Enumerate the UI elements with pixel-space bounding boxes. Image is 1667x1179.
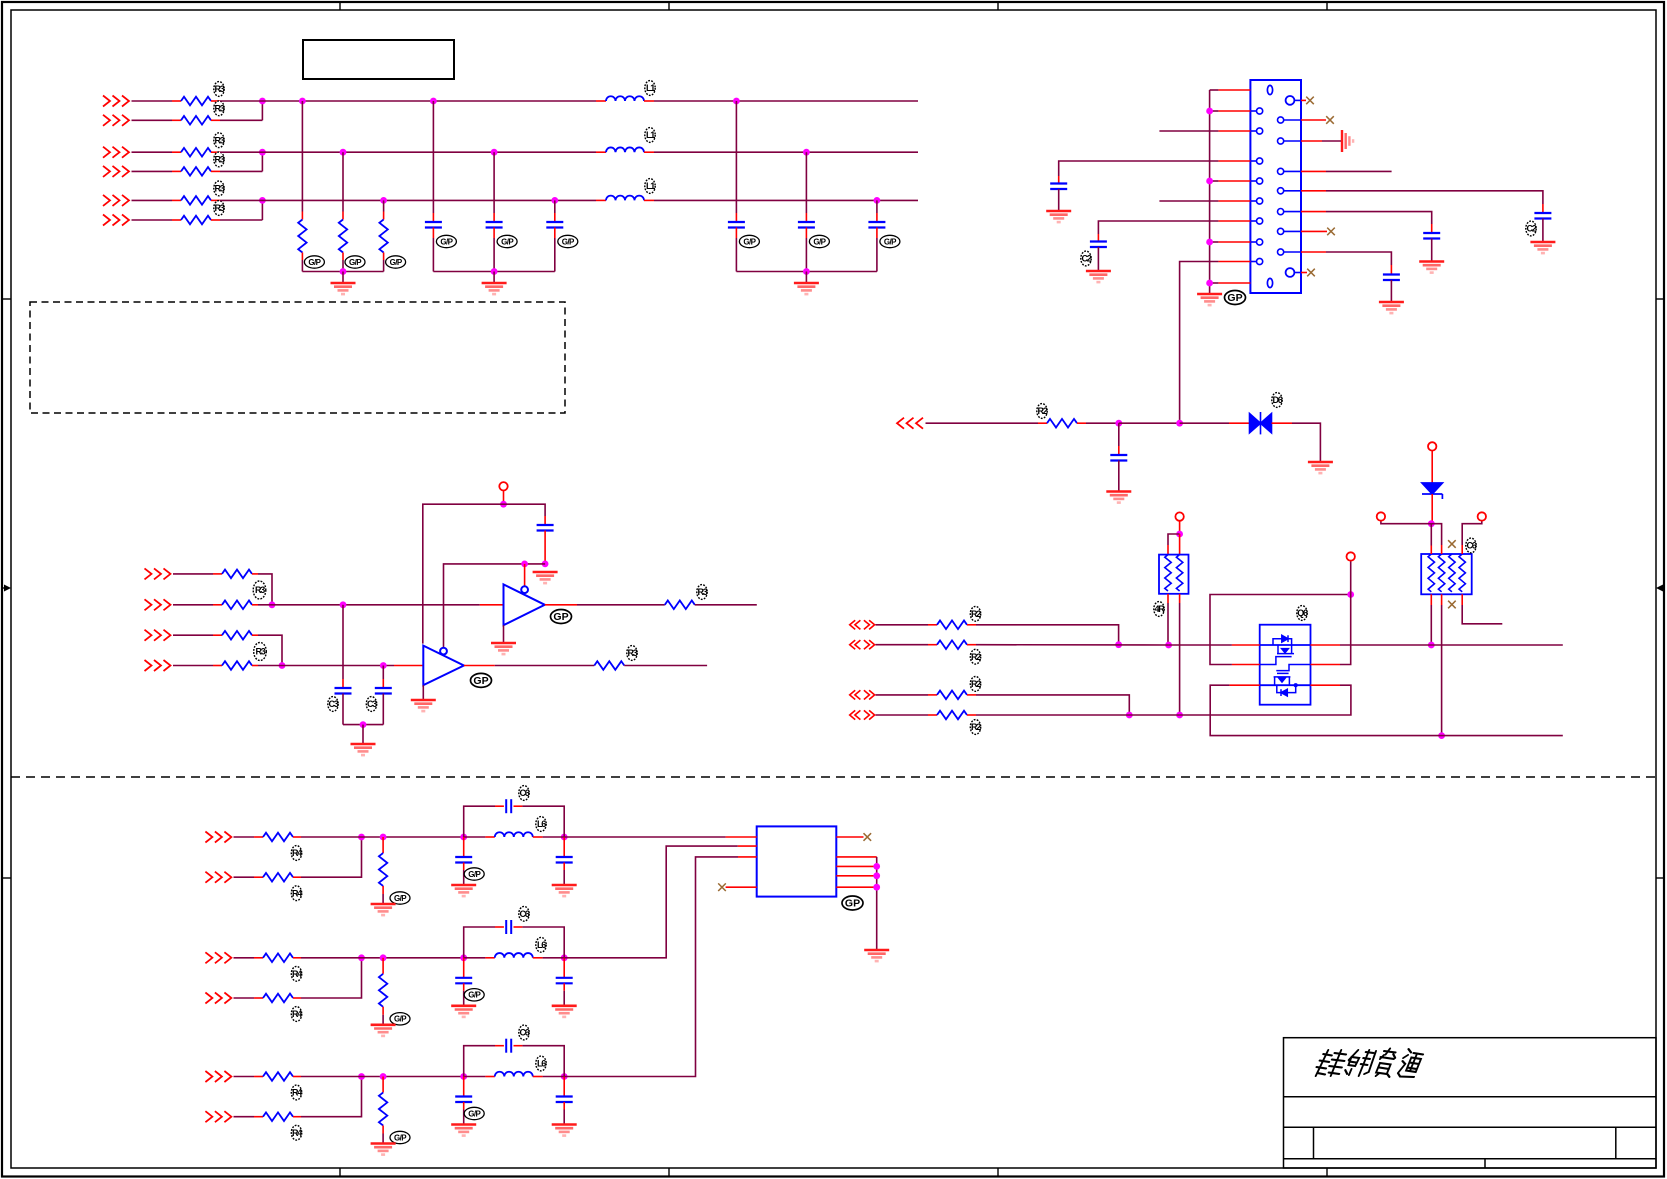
label G/P R17 xyxy=(304,256,324,268)
mosfet Q1 bottom fet xyxy=(1274,677,1291,685)
lead R24 right xyxy=(967,714,976,716)
wire net J1 pin161 xyxy=(1059,161,1219,176)
lead RN2 col1 top xyxy=(1430,546,1432,555)
wire R31 corner xyxy=(258,574,272,605)
lead C31 top xyxy=(342,679,344,688)
wire C72 down xyxy=(463,991,465,1005)
resistor R11 xyxy=(181,97,211,106)
no-connect X U4 right top xyxy=(864,833,872,841)
wire resistor bus stub xyxy=(342,272,344,283)
svg-text:L1: L1 xyxy=(646,181,655,191)
lead J1 left y131 xyxy=(1218,130,1250,132)
mosfet Q1 row C internal xyxy=(1260,684,1311,686)
label G/P C72 xyxy=(464,989,484,1001)
lead U2 bubble xyxy=(524,564,526,586)
lead R14 xyxy=(172,170,181,172)
wire block2 out xyxy=(564,846,738,958)
buffer U2 xyxy=(504,584,545,625)
node bufnet upper cap xyxy=(340,601,347,608)
node R17 tap xyxy=(299,98,306,105)
wire C31 down xyxy=(342,694,344,725)
lead L2 left xyxy=(596,151,606,153)
svg-text:C3: C3 xyxy=(367,699,377,709)
wire RN2 col2 down xyxy=(1441,605,1443,736)
dashed region box xyxy=(30,302,565,413)
lead RN2 col1 bot xyxy=(1430,594,1432,605)
resistor R31 xyxy=(222,570,252,579)
wire C73 down xyxy=(463,1110,465,1124)
input chevrons R11 xyxy=(103,96,129,107)
wire C14 drop xyxy=(735,101,737,213)
resistor R36 xyxy=(594,661,624,670)
border zone tick bottom xyxy=(339,1168,341,1177)
lead RN2 col4 top xyxy=(1461,545,1463,554)
wire C12 to bus xyxy=(493,238,495,272)
lead J1 right y100 xyxy=(1301,99,1306,101)
node block3 pi1 xyxy=(460,1073,467,1080)
wire C11 drop xyxy=(432,101,434,213)
label R41a xyxy=(291,846,302,861)
node R23R24 xyxy=(1126,712,1133,719)
capacitor C21 xyxy=(1050,184,1067,190)
node R15 junction xyxy=(259,197,266,204)
lead C71 top xyxy=(463,837,465,857)
lead C72 top xyxy=(463,958,465,978)
wire R51 gnd xyxy=(382,894,384,903)
lead J1 right y171 xyxy=(1301,170,1326,172)
node R31R32 xyxy=(269,601,276,608)
svg-text:R2: R2 xyxy=(1037,406,1047,416)
border center arrow left xyxy=(2,585,11,592)
lead R43b right xyxy=(293,1116,301,1118)
lead L61 right xyxy=(533,836,543,838)
label C32 xyxy=(366,697,377,712)
node J1 bus y283 xyxy=(1206,280,1213,287)
wire R16 to junction xyxy=(220,219,262,221)
node cap bus mid xyxy=(360,721,367,728)
resistor R42a xyxy=(263,954,293,963)
node U4 r3 xyxy=(873,872,880,879)
resistor network RN2 body xyxy=(1421,554,1472,594)
lead C71 bot xyxy=(463,863,465,871)
capacitor C32 xyxy=(375,688,392,694)
svg-text:R4: R4 xyxy=(292,848,302,858)
wire TVS row xyxy=(1119,422,1180,424)
input chevrons R16 xyxy=(103,215,129,226)
ground C23 xyxy=(1530,242,1555,253)
lead J1 left y161 xyxy=(1218,160,1250,162)
wire C71 down xyxy=(463,870,465,884)
label C63 xyxy=(519,1025,530,1040)
label G/P R51 xyxy=(390,892,410,904)
node cap bus 2 xyxy=(803,268,810,275)
wire block2 row xyxy=(301,957,464,959)
wire U2 out2 xyxy=(695,604,757,606)
lead R15 xyxy=(172,199,181,201)
border zone tick top xyxy=(1326,2,1328,10)
wire J1 y141 to gnd xyxy=(1322,140,1341,142)
lead R12 xyxy=(172,119,181,121)
resistor R24 xyxy=(937,711,967,720)
lead U3 out xyxy=(464,665,495,667)
lead R32 right xyxy=(252,604,258,606)
lead R19 top xyxy=(383,212,385,220)
capacitor C81 xyxy=(556,857,573,863)
svg-text:R4: R4 xyxy=(292,1128,302,1138)
node U4 r4 xyxy=(873,884,880,891)
buffer U3 xyxy=(423,646,464,686)
label G/P R18 xyxy=(345,256,365,268)
wire C32 drop xyxy=(382,666,384,680)
node block1 rtap xyxy=(380,834,387,841)
lead C33 top xyxy=(544,516,546,525)
lead Q1 rowA left xyxy=(1232,644,1260,646)
resistor R12 xyxy=(181,116,211,125)
capacitor C25 xyxy=(1383,275,1400,281)
resistor R19 xyxy=(379,220,387,253)
lead R16 out xyxy=(211,219,220,221)
label R23 xyxy=(970,677,981,692)
wire J1 y171 stub xyxy=(1326,170,1392,172)
capacitor C22 xyxy=(1090,242,1107,248)
label C22 xyxy=(1081,251,1092,266)
lead R42a right xyxy=(293,957,301,959)
lead L62 left xyxy=(485,957,494,959)
wire R33 in xyxy=(173,634,213,636)
node bufnet lower cap xyxy=(380,662,387,669)
connector J1 right pin y231.4 xyxy=(1278,228,1302,234)
node RN1 col2 net714 xyxy=(1176,712,1183,719)
label D1 xyxy=(1272,393,1283,408)
label R41b xyxy=(291,886,302,901)
svg-text:G/P: G/P xyxy=(468,991,481,1000)
lead R14 out xyxy=(211,170,220,172)
label L3 xyxy=(645,179,655,194)
wire net J1 pin252 xyxy=(1326,252,1391,265)
border zone tick right xyxy=(1656,298,1664,300)
wire RN1 col2 down xyxy=(1179,603,1181,715)
resistor R16 xyxy=(181,216,211,225)
ground cap bus 2 xyxy=(794,283,819,294)
wire U3 gnd drop xyxy=(422,685,424,699)
inductor L61 xyxy=(495,832,533,837)
wire bufnet lower a xyxy=(258,665,394,667)
no-connect X U4 pin4 xyxy=(718,883,726,891)
wire block3 b corner xyxy=(301,1077,362,1117)
label G/P C12 xyxy=(497,235,517,247)
lead L2 right xyxy=(644,151,654,153)
label R15 xyxy=(214,181,225,196)
wire cap bus 1 stub xyxy=(493,272,495,283)
wire C16 to bus xyxy=(876,238,878,272)
wire net714 b xyxy=(1180,685,1351,715)
label R20 xyxy=(1037,404,1048,419)
power pin Q1 xyxy=(1347,552,1355,560)
wire rowA right xyxy=(1340,644,1563,646)
wire C25 down xyxy=(1390,280,1392,301)
connector J1 left pin y161 xyxy=(1250,158,1262,164)
wire block3 out xyxy=(564,857,738,1077)
resistor R43b xyxy=(263,1112,293,1121)
ground C25 xyxy=(1379,302,1404,313)
power pin RN2a xyxy=(1377,512,1385,520)
lead R41b left xyxy=(254,876,263,878)
lead C83 bot xyxy=(563,1102,565,1110)
resistor network RN1 element 1 xyxy=(1165,555,1171,591)
wire RN1 col1 down xyxy=(1167,603,1169,645)
label R21 xyxy=(970,606,981,621)
wire J1 pin201 stub xyxy=(1159,200,1218,202)
lead C73 bot xyxy=(463,1102,465,1110)
node C33 bot xyxy=(542,561,549,568)
label G/P C16 xyxy=(880,235,900,247)
lead J1 left y283 xyxy=(1218,282,1250,284)
wire J1 bus tap y111 xyxy=(1210,110,1219,112)
node resistor bus xyxy=(340,268,347,275)
lead J1 right y231 xyxy=(1301,230,1327,232)
lead C83 top xyxy=(563,1077,565,1097)
lead C11 bot xyxy=(432,228,434,239)
input chevrons R31 xyxy=(145,568,171,579)
lead U2 out xyxy=(545,604,577,606)
ground C71 xyxy=(451,885,476,896)
node R18 tap xyxy=(340,149,347,156)
lead U3 in xyxy=(394,665,423,667)
node RN1 top xyxy=(1176,531,1183,538)
wire J1 bus tap y242 xyxy=(1210,241,1219,243)
wire C12 drop xyxy=(493,152,495,213)
wire block3 row xyxy=(301,1076,464,1078)
input chevrons R15 xyxy=(103,195,129,206)
no-connect X pin y120 xyxy=(1326,116,1334,124)
power pin D2 xyxy=(1428,442,1436,450)
connector J1 pin bottom oval xyxy=(1267,278,1272,287)
lead R32 left xyxy=(213,604,222,606)
node J1 bus y242 xyxy=(1206,239,1213,246)
svg-text:L1: L1 xyxy=(646,130,655,140)
lead R53 bot xyxy=(382,1126,384,1134)
capacitor C26 xyxy=(1110,455,1127,461)
lead R20 left xyxy=(1038,422,1047,424)
resistor R53 xyxy=(379,1093,387,1126)
lead RN1 col2 top xyxy=(1179,534,1181,555)
bidir port R22 xyxy=(850,640,875,649)
svg-text:GP: GP xyxy=(1227,292,1242,304)
wire L62 right link xyxy=(543,957,565,959)
border zone tick left xyxy=(2,298,11,300)
label C61 xyxy=(519,786,530,801)
capacitor C11 xyxy=(425,222,442,228)
lead C63 left xyxy=(495,1045,504,1047)
lead R22 right xyxy=(967,644,976,646)
ground cap bus mid xyxy=(351,744,376,755)
lead R13 xyxy=(172,151,181,153)
ground C73 xyxy=(451,1125,476,1136)
lead R21 left xyxy=(928,624,937,626)
node J1 bus y111 xyxy=(1206,108,1213,115)
wire R15 bus a xyxy=(220,199,596,201)
svg-text:G/P: G/P xyxy=(468,870,481,879)
node C13 tap xyxy=(551,197,558,204)
svg-text:GP: GP xyxy=(553,611,568,623)
lead Q1 rowC right xyxy=(1311,684,1341,686)
wire net J1 pin211 xyxy=(1326,212,1432,224)
svg-text:G/P: G/P xyxy=(562,237,575,246)
wire RN2 top link xyxy=(1381,521,1442,545)
wire block1 pi top2 xyxy=(522,806,564,837)
border zone tick bottom xyxy=(997,1168,999,1177)
ground C81 xyxy=(552,885,577,896)
label G/P C14 xyxy=(739,235,759,247)
svg-text:R2: R2 xyxy=(971,609,981,619)
lead U4 pin3 xyxy=(738,856,757,858)
ground C83 xyxy=(552,1125,577,1136)
capacitor C71 xyxy=(455,857,472,863)
lead D2 top xyxy=(1431,451,1433,483)
wire R17 to bus xyxy=(301,260,303,272)
lead L61 left xyxy=(485,836,494,838)
wire cap bus 2 stub xyxy=(805,272,807,283)
label R13 xyxy=(214,133,225,148)
svg-text:C2: C2 xyxy=(1081,254,1091,264)
connector J1 right pin y171.4 xyxy=(1278,168,1302,174)
wire R24 in xyxy=(876,714,929,716)
wire cap bus 1 xyxy=(433,271,554,273)
lead R20 right xyxy=(1077,422,1086,424)
wire R53 gnd xyxy=(382,1134,384,1143)
lead C22 top xyxy=(1097,234,1099,242)
label GP U3 xyxy=(471,673,492,687)
wire U2 out xyxy=(577,604,665,606)
input chevrons R32 xyxy=(145,599,171,610)
lead R18 bot xyxy=(342,253,344,261)
node block1 pi1 xyxy=(460,834,467,841)
svg-text:R4: R4 xyxy=(292,1088,302,1098)
lead C23 top xyxy=(1542,204,1544,213)
lead C82 top xyxy=(563,958,565,978)
lead R16 xyxy=(172,219,181,221)
ground C21 xyxy=(1046,211,1071,222)
capacitor C62 xyxy=(506,920,511,934)
wire R41b in xyxy=(234,876,255,878)
no-connect X pin y272 xyxy=(1307,269,1315,277)
wire RN2 col1 up xyxy=(1430,524,1432,546)
connector J1 left pin y111 xyxy=(1250,108,1262,114)
label G/P C73 xyxy=(464,1107,484,1119)
mosfet Q1 bottom gate xyxy=(1276,665,1310,674)
lead R41a left xyxy=(254,836,263,838)
wire bufnet upper a xyxy=(258,604,480,606)
svg-text:R2: R2 xyxy=(971,652,981,662)
label R33 pair xyxy=(254,643,267,661)
wire C82 down xyxy=(563,991,565,1005)
diode TVS D1 xyxy=(1250,412,1272,434)
lead C16 bot xyxy=(876,228,878,239)
wire R14 to junction xyxy=(220,170,262,172)
power pin VCC buffers xyxy=(499,482,507,490)
ground C82 xyxy=(552,1006,577,1017)
wire J1 bottom corner xyxy=(1210,282,1219,284)
lead C32 top xyxy=(382,679,384,688)
wire C23 down xyxy=(1542,219,1544,242)
border zone tick bottom xyxy=(668,1168,670,1177)
svg-text:R3: R3 xyxy=(214,104,224,114)
capacitor C61 xyxy=(506,799,511,813)
node R21R22 xyxy=(1115,641,1122,648)
lead J1 right y211 xyxy=(1301,211,1326,213)
wire C15 drop xyxy=(805,152,807,213)
lead C72 bot xyxy=(463,983,465,991)
mosfet Q1 top gate xyxy=(1260,657,1292,665)
resistor R22 xyxy=(937,640,967,649)
svg-text:L6: L6 xyxy=(537,940,546,950)
lead R41b right xyxy=(293,876,301,878)
capacitor C73 xyxy=(455,1097,472,1103)
wire C26 drop xyxy=(1118,423,1120,446)
node U4 r2 xyxy=(873,863,880,870)
lead R51 top xyxy=(382,837,384,853)
capacitor C16 xyxy=(868,222,885,228)
power pin RN1 xyxy=(1175,512,1183,520)
svg-text:G/P: G/P xyxy=(390,258,403,267)
lead L63 right xyxy=(533,1076,543,1078)
lead J1 left y201 xyxy=(1218,200,1250,202)
wire R12 in xyxy=(132,119,173,121)
lead RN1 col1 top xyxy=(1167,545,1169,555)
wire C14 to bus xyxy=(735,238,737,272)
svg-text:L1: L1 xyxy=(646,83,655,93)
node R19 tap xyxy=(380,197,387,204)
wire R14 in xyxy=(132,170,173,172)
input chevrons R41a xyxy=(205,832,231,843)
lead R23 left xyxy=(928,694,937,696)
label R31 pair xyxy=(253,581,266,599)
wire R11 in xyxy=(132,100,173,102)
capacitor C82 xyxy=(556,978,573,984)
connector J1 right pin y252 xyxy=(1278,249,1302,255)
wire block1 pi top xyxy=(464,806,495,837)
lead R17 bot xyxy=(301,253,303,261)
inductor L2 xyxy=(606,147,644,152)
label G/P C71 xyxy=(464,868,484,880)
node RN1 col1 rowA xyxy=(1165,642,1172,649)
border center arrow right xyxy=(1656,585,1664,592)
svg-text:C6: C6 xyxy=(519,788,529,798)
wire net735 xyxy=(1210,685,1563,735)
lead L63 left xyxy=(485,1076,494,1078)
title block outline xyxy=(1284,1038,1657,1168)
lead RN2 col4 bot xyxy=(1461,594,1463,605)
lead R19 bot xyxy=(383,253,385,261)
label C23 xyxy=(1526,221,1537,236)
resistor R13 xyxy=(181,148,211,157)
lead Q1 rowC left xyxy=(1229,684,1259,686)
lead R42a left xyxy=(254,957,263,959)
node R13 junction xyxy=(259,149,266,156)
label R42b xyxy=(291,1007,302,1022)
lead C82 bot xyxy=(563,983,565,991)
lead U4 r3 xyxy=(836,875,876,877)
node block2 pi2 xyxy=(561,954,568,961)
lead RN2 col2 top xyxy=(1441,545,1443,554)
label Q1 xyxy=(1297,606,1308,621)
wire TVS row2 xyxy=(1180,422,1229,424)
wire R15 in xyxy=(132,199,173,201)
node block2 join xyxy=(358,954,365,961)
label C62 xyxy=(519,906,530,921)
wire net644 a xyxy=(976,644,1169,646)
input chevrons R41b xyxy=(205,872,231,883)
